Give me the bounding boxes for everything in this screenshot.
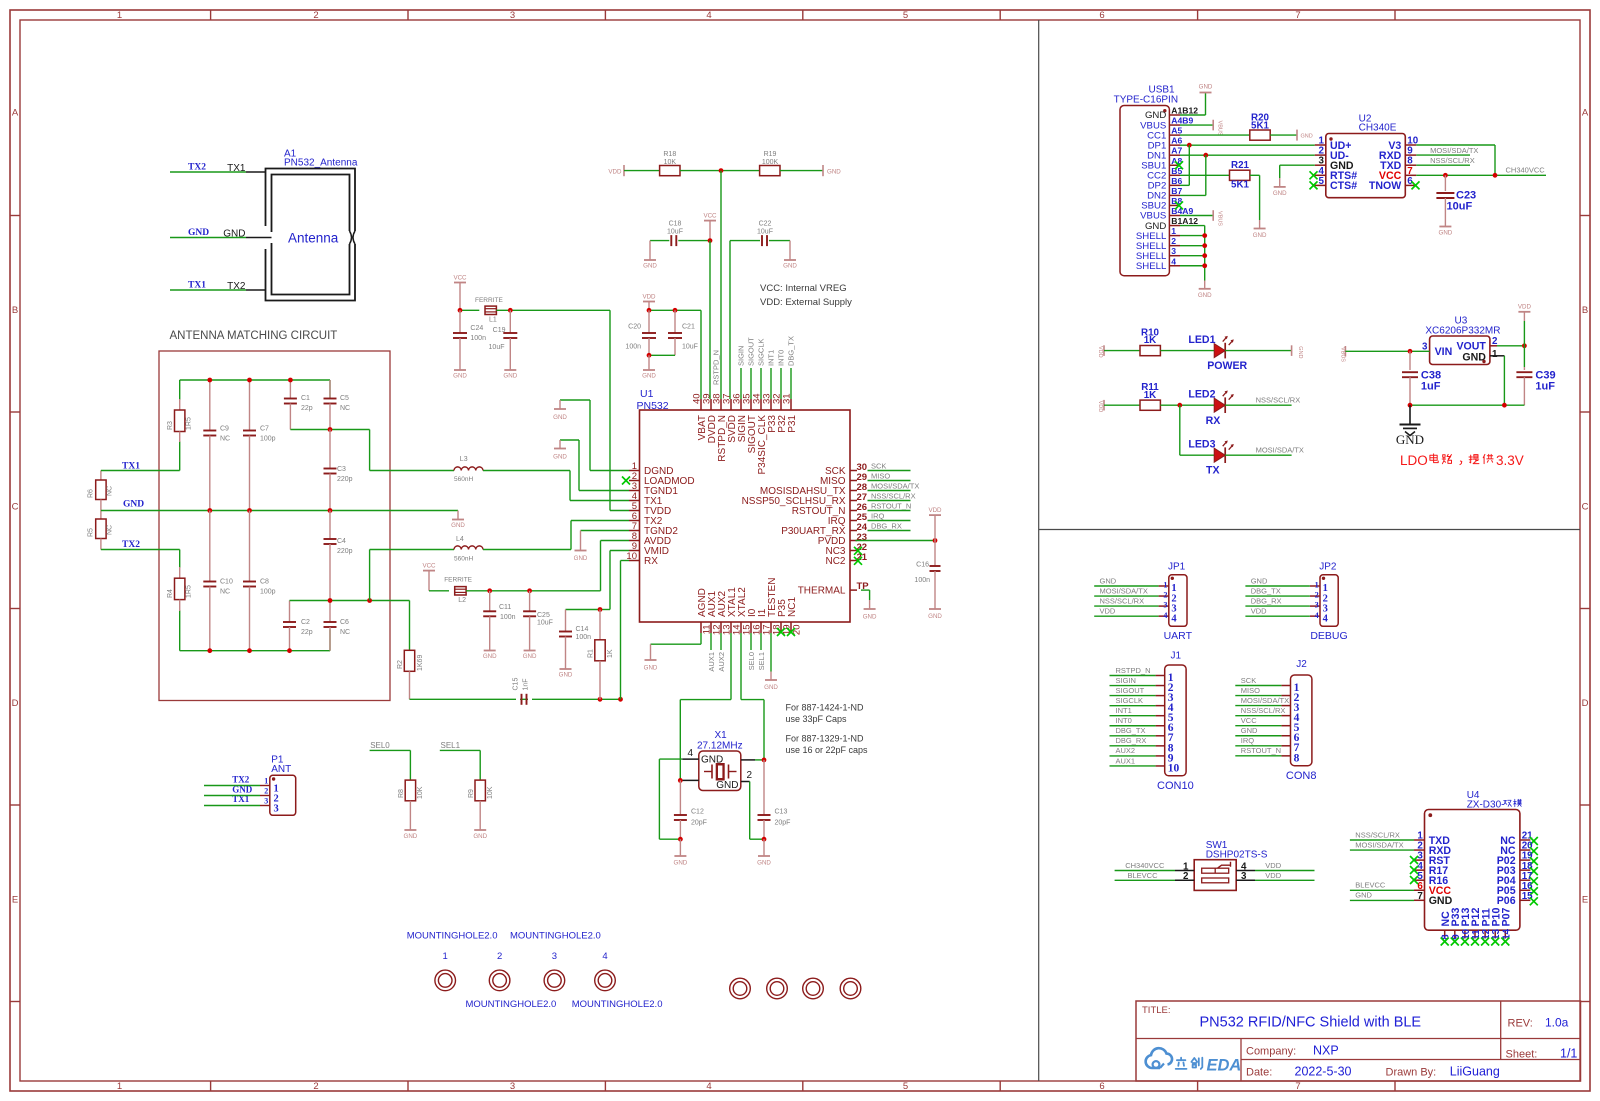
antenna A1 coil outline: [266, 169, 356, 301]
svg-text:1R5: 1R5: [186, 585, 193, 598]
J1 pin 3: [1156, 695, 1165, 697]
no-connect NC3: [854, 547, 862, 555]
svg-text:L1: L1: [489, 317, 497, 324]
svg-text:C14: C14: [576, 626, 589, 633]
svg-text:3.3V: 3.3V: [1496, 453, 1524, 468]
junction: [1408, 349, 1413, 354]
svg-text:VCC: VCC: [453, 275, 467, 282]
svg-text:Sheet:: Sheet:: [1506, 1049, 1538, 1061]
antenna pin TX2: [246, 289, 266, 291]
svg-text:C9: C9: [220, 426, 229, 433]
svg-text:100n: 100n: [625, 344, 641, 351]
JP1 pin 3: [1159, 605, 1169, 607]
SW1 pin 4: [1236, 870, 1255, 872]
svg-text:A5: A5: [1171, 126, 1182, 136]
earth ground: [1409, 405, 1411, 424]
svg-text:NXP: NXP: [1313, 1044, 1339, 1058]
U1 pin 6 TX2: [629, 520, 640, 522]
wire: [1180, 134, 1250, 136]
wire: [621, 560, 630, 562]
USB1 pin A5 CC1: [1169, 134, 1180, 136]
U1 pin 29 MISO: [850, 480, 857, 482]
svg-text:10K: 10K: [487, 786, 494, 799]
svg-text:B7: B7: [1171, 186, 1182, 196]
ground: [504, 369, 516, 371]
mounting hole: [840, 978, 861, 999]
svg-text:1uF: 1uF: [1535, 381, 1555, 393]
svg-text:4: 4: [1315, 611, 1319, 620]
no-connect: [1461, 938, 1469, 946]
svg-text:SIGIN: SIGIN: [737, 346, 746, 366]
wire: [1180, 184, 1189, 186]
svg-text:XC6206P332MR: XC6206P332MR: [1425, 325, 1500, 336]
U2 pin 9 RXD: [1405, 154, 1416, 156]
U1 pin 33 P33: [770, 399, 772, 410]
U4 pin 21 NC: [1520, 839, 1531, 841]
svg-text:DBG_RX: DBG_RX: [1116, 736, 1147, 745]
svg-text:GND: GND: [783, 263, 797, 270]
svg-text:GND: GND: [404, 833, 418, 840]
USB1 pin 1 SHELL: [1169, 235, 1180, 237]
resistor R21: [1230, 170, 1250, 180]
junction: [527, 588, 532, 593]
wire TX1 to U1: [483, 470, 570, 472]
svg-text:20pF: 20pF: [775, 820, 791, 827]
U1 pin 35 SIGOUT: [750, 399, 752, 410]
USB1 pin A4B9 VBUS: [1169, 124, 1180, 126]
U1 pin 1 DGND: [629, 470, 640, 472]
svg-text:FERRITE: FERRITE: [475, 297, 503, 304]
JP1 pin 4: [1159, 615, 1169, 617]
U1 pin 25 IRQ: [850, 520, 857, 522]
ground: [1439, 226, 1451, 228]
svg-text:1uF: 1uF: [1421, 381, 1441, 393]
svg-text:NSS/SCL/RX: NSS/SCL/RX: [871, 491, 916, 500]
svg-text:use 16 or 22pF caps: use 16 or 22pF caps: [786, 745, 869, 755]
svg-text:6: 6: [1099, 10, 1104, 21]
wire: [1416, 154, 1470, 156]
svg-text:22p: 22p: [301, 405, 313, 412]
svg-text:220p: 220p: [337, 476, 353, 483]
wire AVDD: [466, 590, 600, 592]
wire: [1250, 174, 1260, 176]
U4 pin 4 R17: [1414, 869, 1425, 871]
wire: [610, 550, 629, 552]
wire: [755, 759, 764, 761]
wire: [650, 240, 669, 242]
svg-text:RSTOUT_N: RSTOUT_N: [1241, 746, 1281, 755]
svg-text:LDO: LDO: [1400, 453, 1428, 468]
svg-text:R2: R2: [397, 660, 404, 669]
J1 pin 5: [1156, 715, 1165, 717]
svg-text:C7: C7: [260, 426, 269, 433]
section divider horizontal: [1039, 529, 1580, 531]
U2 pin 1 UD+: [1315, 144, 1326, 146]
wire: [590, 470, 629, 472]
svg-text:REV:: REV:: [1508, 1018, 1533, 1030]
mounting hole: [803, 978, 824, 999]
svg-text:4: 4: [706, 10, 711, 21]
wire: [1110, 685, 1156, 687]
svg-text:GND: GND: [1396, 432, 1424, 447]
svg-text:C: C: [1582, 501, 1589, 512]
inductor L4: [454, 546, 483, 550]
section divider vertical: [1038, 20, 1040, 1081]
junction: [762, 837, 767, 842]
U4 pin 2 RXD: [1414, 849, 1425, 851]
USB1 pin B8 SBU2: [1169, 204, 1180, 206]
ground: [789, 241, 791, 260]
junction: [1202, 243, 1207, 248]
wire: [868, 530, 911, 532]
wire: [429, 590, 449, 592]
wire lower junction row: [290, 600, 410, 602]
wire TX1 left: [101, 470, 180, 472]
wire: [1180, 245, 1205, 247]
wire: [1350, 889, 1414, 891]
svg-text:A4B9: A4B9: [1171, 116, 1193, 126]
no-connect RST: [1410, 856, 1418, 864]
frame column ticks: [210, 10, 212, 20]
wire: [1110, 735, 1156, 737]
U4 pin 20 NC: [1520, 849, 1531, 851]
J1 pin 6: [1156, 725, 1165, 727]
wire top bus: [180, 379, 330, 381]
U1 pin 10 RX: [629, 560, 640, 562]
capacitor C11: [489, 591, 491, 612]
svg-text:CH340VCC: CH340VCC: [1506, 166, 1546, 175]
svg-text:B4A9: B4A9: [1171, 206, 1193, 216]
wire: [1416, 164, 1470, 166]
svg-text:VDD: VDD: [1251, 607, 1267, 616]
no-connect: [1530, 887, 1538, 895]
svg-text:SIGOUT: SIGOUT: [747, 337, 756, 366]
wire: [1180, 124, 1213, 126]
net port VDD: [1103, 345, 1105, 356]
junction: [1502, 403, 1507, 408]
svg-text:NC2: NC2: [825, 556, 845, 567]
svg-text:C22: C22: [759, 221, 772, 228]
svg-text:SCK: SCK: [871, 461, 886, 470]
svg-text:IRQ: IRQ: [871, 511, 885, 520]
wire: [1110, 675, 1156, 677]
U1 pin 19 P35: [780, 622, 782, 633]
wire GND bus: [101, 510, 458, 512]
wire to TVDD: [496, 309, 610, 311]
wire TX2 out: [369, 550, 371, 601]
svg-text:2: 2: [747, 770, 753, 781]
svg-text:TX2: TX2: [122, 540, 140, 550]
no-connect: [1441, 938, 1449, 946]
svg-text:MOSI/SDA/TX: MOSI/SDA/TX: [1256, 446, 1304, 455]
svg-text:AUX1: AUX1: [707, 652, 716, 672]
svg-text:DEBUG: DEBUG: [1310, 630, 1347, 642]
svg-text:SIGCLK: SIGCLK: [1116, 696, 1144, 705]
svg-text:TX: TX: [1206, 465, 1220, 477]
wire: [1225, 454, 1291, 456]
svg-text:A: A: [12, 107, 19, 118]
svg-text:GND: GND: [674, 860, 688, 867]
wire: [1497, 345, 1524, 347]
U1 pin 26 RSTOUT_N: [850, 510, 857, 512]
svg-text:C5: C5: [340, 395, 349, 402]
no-connect RTS#: [1310, 171, 1318, 179]
wire P1-1: [204, 785, 260, 787]
ground: [404, 829, 416, 831]
svg-text:L3: L3: [460, 456, 468, 463]
svg-text:INT1: INT1: [767, 350, 776, 366]
no-connect: [1530, 867, 1538, 875]
svg-text:2: 2: [1163, 591, 1167, 600]
svg-text:GND: GND: [863, 613, 877, 620]
capacitor C15: [521, 694, 523, 705]
J2 pin 3: [1281, 705, 1290, 707]
svg-text:1K: 1K: [1144, 335, 1157, 346]
svg-text:3: 3: [510, 10, 515, 21]
svg-text:MISO: MISO: [1241, 686, 1260, 695]
svg-text:CH340E: CH340E: [1359, 123, 1397, 134]
junction: [207, 378, 212, 383]
svg-text:GND: GND: [1429, 895, 1453, 907]
svg-text:EDA: EDA: [1207, 1057, 1242, 1075]
no-connect CTS#: [1310, 181, 1318, 189]
svg-text:LED3: LED3: [1188, 438, 1215, 450]
svg-text:AUX2: AUX2: [717, 652, 726, 672]
wire: [868, 480, 911, 482]
svg-text:VDD: VDD: [642, 294, 656, 301]
svg-text:CH340VCC: CH340VCC: [1125, 861, 1165, 870]
wire TX2 left: [101, 549, 180, 551]
capacitor C14: [565, 610, 567, 632]
USB1 pin 4 SHELL: [1169, 265, 1180, 267]
svg-text:1: 1: [264, 777, 268, 786]
svg-text:CON10: CON10: [1157, 780, 1194, 792]
U1 pin 4 TX1: [629, 500, 640, 502]
svg-text:C3: C3: [337, 466, 346, 473]
no-connect: [1451, 938, 1459, 946]
svg-text:CON8: CON8: [1286, 770, 1317, 782]
svg-text:NSS/SCL/RX: NSS/SCL/RX: [1430, 156, 1475, 165]
svg-text:DSHP02TS-S: DSHP02TS-S: [1206, 849, 1268, 860]
USB1 pin B5 CC2: [1169, 174, 1180, 176]
wire: [1110, 695, 1156, 697]
wire: [1110, 715, 1156, 717]
JP2 pin 2: [1310, 595, 1320, 597]
svg-text:GND: GND: [453, 373, 467, 380]
svg-text:GND: GND: [1355, 891, 1372, 900]
svg-text:RX: RX: [644, 556, 658, 567]
J2 pin 1: [1281, 685, 1290, 687]
SW1 pin 2: [1175, 879, 1194, 881]
svg-text:INT1: INT1: [1116, 706, 1132, 715]
junction: [1202, 233, 1207, 238]
ground: [649, 241, 651, 260]
wire: [1115, 870, 1175, 872]
svg-text:CTS#: CTS#: [1330, 180, 1357, 192]
svg-text:MOUNTINGHOLE2.0: MOUNTINGHOLE2.0: [510, 931, 601, 942]
wire: [1410, 404, 1524, 406]
svg-text:8: 8: [1294, 752, 1300, 764]
wire: [1416, 174, 1546, 176]
svg-text:4: 4: [602, 951, 607, 962]
svg-text:VBUS: VBUS: [1216, 211, 1222, 226]
junction: [678, 778, 683, 783]
svg-text:UART: UART: [1164, 630, 1193, 642]
svg-text:C24: C24: [470, 325, 483, 332]
U4 pin 17 P04: [1520, 879, 1531, 881]
wire: [720, 633, 722, 650]
wire to C14: [566, 609, 601, 611]
resistor R8: [405, 780, 415, 801]
wire bottom return bus: [410, 698, 621, 700]
U1 pin 9 VMID: [629, 550, 640, 552]
svg-text:R1: R1: [588, 649, 595, 658]
svg-text:5: 5: [903, 10, 908, 21]
no-connect TNOW: [1412, 181, 1420, 189]
USB1 pin 3 SHELL: [1169, 255, 1180, 257]
junction: [647, 308, 652, 313]
svg-text:1: 1: [1163, 581, 1167, 590]
wire: [1104, 350, 1140, 352]
net port VBUS: [1212, 120, 1214, 131]
ground: [1204, 281, 1206, 289]
junction: [367, 598, 372, 603]
svg-text:VDD: VDD: [1100, 607, 1116, 616]
U4 pin 8 NC: [1444, 930, 1446, 938]
wire: [769, 240, 790, 242]
svg-text:NC: NC: [107, 525, 114, 535]
svg-text:5: 5: [903, 1081, 908, 1092]
svg-text:GND: GND: [764, 684, 778, 691]
wire: [1235, 755, 1281, 757]
junction: [288, 378, 293, 383]
wire: [868, 510, 911, 512]
resistor R5: [100, 511, 102, 520]
capacitor C23: [1444, 175, 1446, 191]
svg-text:GND: GND: [451, 522, 465, 529]
svg-text:GND: GND: [553, 454, 567, 461]
U1 pin 3 TGND1: [629, 490, 640, 492]
svg-text:C4: C4: [337, 538, 346, 545]
junction: [328, 598, 333, 603]
svg-text:GND: GND: [1241, 726, 1258, 735]
wire: [680, 170, 760, 172]
svg-text:1K: 1K: [1144, 390, 1157, 401]
wire: [1225, 404, 1291, 406]
USB1 pin B7 DN2: [1169, 194, 1180, 196]
junction: [328, 508, 333, 513]
wire: [730, 633, 732, 700]
svg-text:C13: C13: [775, 809, 788, 816]
U1 pin 28 MOSISDAHSU_TX: [850, 490, 857, 492]
junction: [719, 168, 724, 173]
svg-text:D: D: [12, 698, 19, 709]
svg-text:B6: B6: [1171, 176, 1182, 186]
svg-text:100p: 100p: [260, 436, 276, 443]
P1 pin 3: [260, 805, 270, 807]
svg-text:22p: 22p: [301, 629, 313, 636]
U1 pin 39 DVDD: [710, 399, 712, 410]
wire: [1094, 605, 1158, 607]
svg-text:AUX1: AUX1: [1116, 756, 1136, 765]
P1 pin 1: [260, 785, 270, 787]
wire: [1503, 356, 1505, 405]
resistor R18: [660, 166, 680, 176]
wire: [579, 490, 629, 492]
U1 pin 8 AVDD: [629, 540, 640, 542]
svg-text:15: 15: [1522, 891, 1533, 902]
svg-text:GND: GND: [473, 833, 487, 840]
junction: [598, 607, 603, 612]
inductor L3: [454, 467, 483, 471]
capacitor C38: [1409, 351, 1411, 370]
resistor R3: [179, 399, 181, 410]
svg-text:10K: 10K: [664, 159, 677, 166]
wire: [1094, 595, 1158, 597]
U2 pin 2 UD-: [1315, 154, 1326, 156]
svg-text:NC: NC: [340, 629, 350, 636]
junction: [1187, 143, 1192, 148]
ferrite bead L1: [485, 306, 496, 314]
wire: [659, 758, 682, 760]
svg-text:DBG_TX: DBG_TX: [1116, 726, 1146, 735]
wire: [1235, 735, 1281, 737]
U1 pin 22 NC3: [850, 550, 857, 552]
svg-text:2: 2: [497, 951, 502, 962]
SW1 pin 1: [1175, 870, 1194, 872]
capacitor C19: [509, 310, 511, 333]
svg-text:GND: GND: [1251, 576, 1268, 585]
junction: [1408, 403, 1413, 408]
svg-text:DBG_TX: DBG_TX: [1251, 586, 1281, 595]
svg-text:2: 2: [264, 787, 268, 796]
svg-text:GND: GND: [757, 860, 771, 867]
svg-text:C11: C11: [499, 604, 511, 611]
no-connect SBU1: [1175, 161, 1183, 169]
svg-text:Date:: Date:: [1246, 1067, 1272, 1079]
capacitor C6: [329, 601, 331, 623]
svg-text:GND: GND: [1198, 292, 1212, 299]
resistor R11: [1140, 400, 1160, 410]
svg-text:GND: GND: [643, 263, 657, 270]
resistor R9: [475, 780, 485, 801]
svg-text:GND: GND: [483, 653, 497, 660]
U1 pin 21 NC2: [850, 560, 857, 562]
no-connect NC1: [787, 628, 795, 636]
svg-text:LED1: LED1: [1188, 334, 1215, 346]
wire: [1345, 350, 1429, 352]
capacitor C12: [679, 780, 681, 815]
svg-text:10: 10: [1168, 762, 1180, 774]
U2 pin 10 V3: [1405, 144, 1416, 146]
USB1 pin B4A9 VBUS: [1169, 215, 1180, 217]
wire: [624, 170, 660, 172]
svg-text:GND: GND: [1199, 84, 1213, 91]
svg-text:6: 6: [1099, 1081, 1104, 1092]
J2 pin 8: [1281, 755, 1290, 757]
svg-text:TX1: TX1: [188, 281, 206, 291]
no-connect P35: [777, 628, 785, 636]
wire: [861, 589, 870, 591]
svg-text:220p: 220p: [337, 548, 353, 555]
ground: [648, 355, 650, 370]
wire SEL1: [440, 749, 480, 751]
svg-text:GND: GND: [644, 665, 658, 672]
wire: [1110, 745, 1156, 747]
ground: [474, 829, 486, 831]
wire P1-3: [204, 805, 260, 807]
USB1 pin A1B12 GND: [1169, 114, 1180, 116]
